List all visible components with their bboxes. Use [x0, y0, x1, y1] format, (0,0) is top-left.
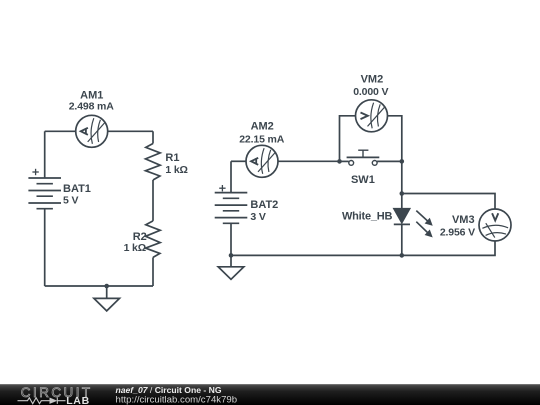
ground right: [230, 255, 232, 266]
ground left: [106, 286, 108, 298]
LED arrow 1: [416, 211, 432, 225]
battery BAT2 bottom lead: [230, 223, 232, 255]
switch SW1 wire right: [377, 160, 402, 162]
wire AM2 right to SW1: [278, 160, 340, 162]
logo diode: [50, 398, 58, 404]
wire left loop left side upper: [44, 131, 46, 178]
plus sign BAT2: [219, 185, 225, 191]
svg-text:VM3: VM3: [452, 214, 475, 226]
wire SW1 junction down to LED node: [401, 161, 403, 193]
voltmeter VM2: [356, 100, 388, 132]
ammeter AM1: [76, 115, 108, 147]
svg-text:AM2: AM2: [251, 120, 274, 132]
wire AM2 left: [231, 160, 246, 162]
ammeter AM2: [246, 145, 278, 177]
svg-text:0.000 V: 0.000 V: [353, 86, 388, 98]
resistor R2: [146, 221, 161, 258]
wire R2 bottom lead: [152, 257, 154, 286]
junction dot LED bottom node: [400, 253, 405, 258]
junction dot left ground: [104, 284, 109, 289]
svg-text:3 V: 3 V: [250, 211, 265, 223]
wire VM3 top branch: [402, 194, 495, 210]
wire left loop left side lower: [44, 209, 46, 286]
wire LED bottom lead: [401, 224, 403, 255]
resistor R1: [146, 144, 161, 181]
LED White_HB: [393, 208, 410, 224]
junction dot right ground: [229, 253, 234, 258]
svg-text:naef_07 / Circuit One - NG: naef_07 / Circuit One - NG: [116, 385, 222, 395]
battery BAT1: [28, 178, 61, 209]
switch SW1: [347, 150, 380, 165]
svg-text:White_HB: White_HB: [342, 211, 393, 223]
junction dot LED top node: [400, 191, 405, 196]
plus sign BAT1: [32, 169, 38, 175]
wire VM2 left branch: [340, 116, 356, 162]
wire left loop bottom: [45, 285, 153, 287]
battery BAT2: [215, 193, 248, 224]
wire bottom right circuit: [231, 254, 402, 256]
voltmeter VM3: [479, 209, 511, 241]
LED arrow 2: [416, 222, 432, 237]
svg-text:AM1: AM1: [80, 89, 103, 101]
wire left loop top-right: [108, 130, 154, 132]
svg-text:SW1: SW1: [351, 174, 375, 186]
switch SW1 wire left: [340, 160, 349, 162]
svg-text:VM2: VM2: [361, 74, 384, 86]
logo resistor squiggle: [18, 398, 50, 404]
svg-text:R1: R1: [165, 152, 179, 164]
wire between R1 and R2: [152, 180, 154, 221]
wire left loop top-left: [45, 130, 76, 132]
junction dot SW1 right: [400, 159, 405, 164]
svg-text:22.15 mA: 22.15 mA: [239, 133, 284, 145]
svg-text:1 kΩ: 1 kΩ: [124, 242, 146, 254]
svg-text:http://circuitlab.com/c74k79b: http://circuitlab.com/c74k79b: [116, 394, 238, 405]
wire VM2 right branch: [388, 116, 402, 162]
footer bar: [0, 384, 540, 405]
svg-text:BAT1: BAT1: [63, 183, 91, 195]
svg-text:1 kΩ: 1 kΩ: [165, 164, 187, 176]
svg-text:BAT2: BAT2: [250, 199, 278, 211]
junction dot SW1 left: [337, 159, 342, 164]
svg-text:5 V: 5 V: [63, 194, 78, 206]
wire R1 top lead: [152, 131, 154, 143]
svg-text:2.956 V: 2.956 V: [440, 227, 475, 239]
svg-text:LAB: LAB: [66, 395, 90, 405]
wire VM3 bottom branch: [402, 241, 495, 255]
battery BAT2 top lead: [230, 161, 232, 192]
wire LED top lead: [401, 194, 403, 209]
svg-text:2.498 mA: 2.498 mA: [69, 101, 114, 113]
